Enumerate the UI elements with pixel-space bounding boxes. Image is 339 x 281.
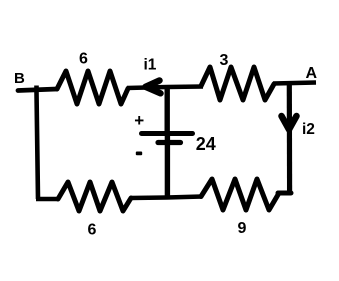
current arrow i2 (pointing down): [282, 116, 297, 130]
svg-text:i1: i1: [144, 57, 157, 74]
svg-text:i2: i2: [302, 121, 315, 138]
resistor R4 (9 ohm, bottom-right): [201, 179, 279, 210]
battery V1: long positive plate: [142, 131, 193, 136]
battery V1: short negative plate: [158, 140, 181, 145]
wire: bottom right stub (R4 to right branch): [278, 191, 291, 196]
battery V1: top lead: [164, 87, 169, 131]
svg-text:6: 6: [88, 222, 97, 239]
wire: left branch vertical: [37, 86, 39, 200]
wire: top middle (R1 to R2 through junction): [127, 87, 203, 89]
svg-text:9: 9: [238, 220, 247, 237]
wire: right branch vertical: [287, 83, 293, 196]
wire: bottom rail left (corner to R3): [36, 197, 58, 202]
resistor R3 (6 ohm, bottom-left): [58, 182, 131, 211]
svg-text:6: 6: [79, 51, 88, 68]
wire: bottom rail middle (R3 to R4 through battery junction): [130, 197, 202, 199]
resistor R2 (3 ohm, top-right): [201, 67, 274, 100]
wire: top right (R2 to node A): [273, 83, 316, 84]
wire: node B lead to left branch: [18, 89, 57, 91]
svg-text:+: +: [134, 111, 144, 130]
resistor R1 (6 ohm, top-left): [57, 71, 128, 104]
svg-text:24: 24: [196, 134, 216, 154]
battery V1: bottom lead: [165, 133, 170, 198]
svg-text:3: 3: [220, 52, 229, 69]
current arrow i1 (pointing left): [146, 81, 161, 94]
battery - terminal label: [136, 152, 142, 156]
svg-text:A: A: [306, 65, 318, 82]
svg-text:B: B: [14, 70, 25, 87]
